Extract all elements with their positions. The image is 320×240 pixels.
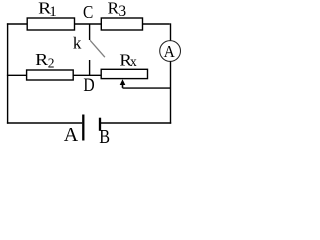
- svg-text:k: k: [73, 34, 82, 53]
- svg-text:C: C: [83, 2, 93, 22]
- svg-text:1: 1: [49, 4, 57, 20]
- svg-text:3: 3: [118, 3, 126, 20]
- svg-text:B: B: [99, 126, 110, 147]
- svg-text:2: 2: [48, 55, 55, 70]
- svg-text:D: D: [83, 76, 94, 96]
- svg-text:R: R: [35, 50, 49, 69]
- svg-text:x: x: [130, 54, 137, 69]
- svg-text:A: A: [64, 124, 79, 146]
- svg-text:A: A: [164, 42, 176, 61]
